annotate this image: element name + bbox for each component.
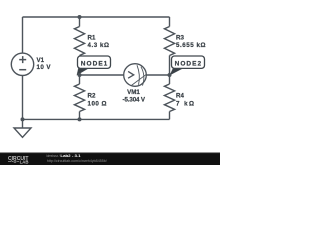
junction dot NODE1 xyxy=(78,73,82,77)
resistor R2 xyxy=(74,84,84,112)
resistor R3 xyxy=(164,27,174,56)
node NODE1 xyxy=(77,56,111,75)
wire left upper xyxy=(22,17,24,53)
V1 plus sign xyxy=(19,56,26,63)
CircuitLab logo trace squiggle xyxy=(8,161,13,162)
wire R3 leads xyxy=(169,17,171,75)
wire bottom xyxy=(23,118,170,120)
svg-text:VM1: VM1 xyxy=(127,89,140,96)
wire voltmeter right xyxy=(146,74,169,76)
svg-text:4.3 kΩ: 4.3 kΩ xyxy=(88,42,110,49)
svg-text:http://circuitlab.com/c/nwrh4y: http://circuitlab.com/c/nwrh4yb8455b/ xyxy=(47,159,107,163)
wire top xyxy=(23,16,170,18)
voltage source V1 xyxy=(11,53,33,75)
wire voltmeter left xyxy=(80,74,124,76)
resistor R1 xyxy=(74,27,84,56)
svg-text:V1: V1 xyxy=(37,57,45,64)
voltmeter gauge arc outer xyxy=(141,67,144,86)
voltmeter VM1 xyxy=(124,64,147,87)
wire left lower xyxy=(22,75,24,119)
wire R1 top lead xyxy=(79,17,81,27)
junction dot bottom left xyxy=(21,117,25,121)
voltmeter needle xyxy=(132,74,147,85)
voltmeter chevron xyxy=(128,71,134,78)
svg-text:Lab2 - 3.1: Lab2 - 3.1 xyxy=(60,154,80,158)
ground xyxy=(14,119,31,137)
voltmeter gauge arc inner xyxy=(137,65,139,85)
svg-text:5.655 kΩ: 5.655 kΩ xyxy=(176,42,206,49)
wire R2 leads xyxy=(79,75,81,119)
svg-text:Idembusz /: Idembusz / xyxy=(46,154,60,158)
svg-text:R3: R3 xyxy=(176,35,184,42)
svg-text:NODE1: NODE1 xyxy=(81,61,108,68)
svg-text:100 Ω: 100 Ω xyxy=(88,100,107,107)
node NODE2 xyxy=(170,56,205,75)
wire R4 leads xyxy=(169,75,171,119)
svg-text:R2: R2 xyxy=(88,93,96,100)
svg-text:-5.304 V: -5.304 V xyxy=(123,97,146,104)
junction dot NODE2 xyxy=(168,73,172,77)
junction dot top R1 xyxy=(78,15,82,19)
svg-text:7 kΩ: 7 kΩ xyxy=(176,100,194,107)
junction dot bottom R2 xyxy=(78,117,82,121)
svg-text:NODE2: NODE2 xyxy=(175,61,202,68)
svg-text:R4: R4 xyxy=(176,93,184,100)
svg-text:10 V: 10 V xyxy=(37,64,52,71)
footer bar xyxy=(0,153,220,165)
svg-text:LAB: LAB xyxy=(20,160,30,165)
V1 minus sign xyxy=(19,69,26,71)
resistor R4 xyxy=(164,84,174,112)
svg-text:R1: R1 xyxy=(88,35,96,42)
wire R1 bottom lead xyxy=(79,56,81,76)
